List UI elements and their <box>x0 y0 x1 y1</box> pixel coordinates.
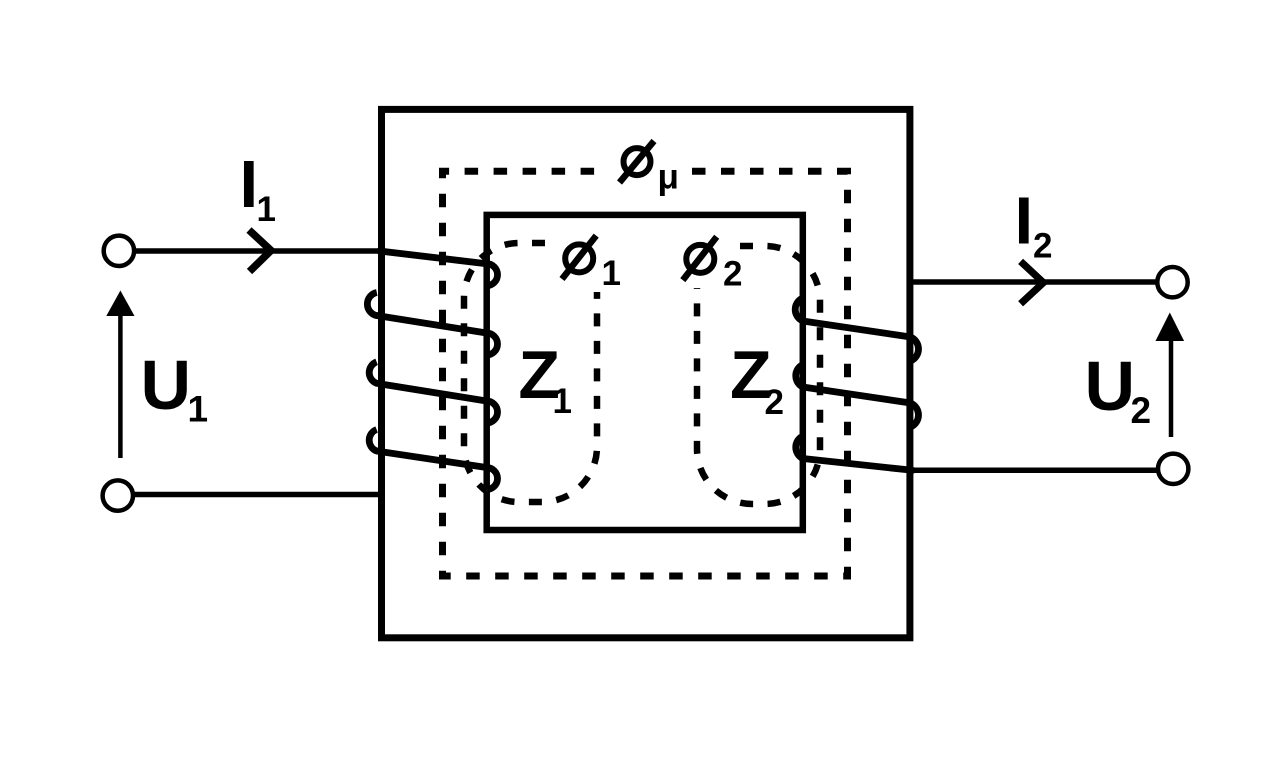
primary winding W1: turn bump 1 (window edge) <box>487 264 498 286</box>
wire: primary top lead <box>135 248 382 254</box>
primary winding W1: turn bump 1 (outer leg) <box>367 293 377 316</box>
core window (inner boundary) <box>487 215 803 530</box>
primary winding W1: turn diagonal 3 <box>377 451 487 468</box>
terminal: secondary bottom <box>1158 454 1188 484</box>
svg-text:I: I <box>240 147 259 222</box>
voltage arrow U1 head <box>106 291 134 317</box>
voltage arrow U2 shaft <box>1169 339 1174 437</box>
secondary winding W2: turn bump 1 (window edge) <box>795 298 803 321</box>
primary winding W1: turn bump 2 (outer leg) <box>369 362 376 384</box>
svg-text:1: 1 <box>257 190 276 229</box>
voltage arrow U2 head <box>1156 313 1185 342</box>
primary winding W1: turn bump 3 (window edge) <box>487 401 498 423</box>
svg-text:1: 1 <box>553 382 572 421</box>
flux label Phi2 : slashed circle <box>683 237 717 280</box>
primary winding W1: turn diagonal 2 <box>377 383 487 401</box>
secondary winding W2: exit diagonal to bottom lead <box>803 459 913 471</box>
svg-text:1: 1 <box>188 389 209 430</box>
terminal: secondary top <box>1157 267 1187 297</box>
terminal: primary top <box>104 236 134 266</box>
primary winding W1: turn diagonal 1 <box>377 316 487 334</box>
current arrow I1 (chevron on primary top lead) <box>249 230 271 272</box>
svg-text:2: 2 <box>723 255 742 294</box>
wire: primary bottom lead <box>134 492 382 498</box>
transformer core outer boundary <box>382 109 910 637</box>
svg-text:2: 2 <box>765 383 784 422</box>
terminal: primary bottom <box>103 480 133 510</box>
leakage flux loop Phi1 (dashed, gap at top-right corner for label) <box>464 243 597 502</box>
secondary winding W2: turn bump 1 (outer leg) <box>911 337 919 361</box>
leakage flux loop Phi2 (dashed, gap at top-left corner for label) <box>697 246 820 504</box>
current arrow I2 (chevron on secondary top lead) <box>1021 261 1044 303</box>
svg-text:2: 2 <box>1131 390 1152 431</box>
wire: secondary bottom lead <box>911 468 1158 474</box>
svg-text:U: U <box>141 346 192 424</box>
secondary winding W2: turn bump 2 (window edge) <box>796 365 803 388</box>
primary winding W1: entry diagonal from top lead <box>380 251 487 264</box>
wire: secondary top lead <box>907 279 1157 285</box>
secondary winding W2: turn diagonal 2 <box>803 387 911 403</box>
primary winding W1: turn bump 3 (outer leg) <box>369 430 376 452</box>
flux label Phi1 : slashed circle <box>562 236 596 279</box>
secondary winding W2: turn bump 2 (outer leg) <box>911 403 919 427</box>
svg-text:U: U <box>1085 347 1136 425</box>
flux label Phi-mu : slashed circle <box>620 141 655 183</box>
svg-text:I: I <box>1015 183 1034 258</box>
voltage arrow U1 shaft <box>118 313 123 458</box>
svg-text:1: 1 <box>602 254 621 293</box>
secondary winding W2: turn bump 3 (window edge) <box>796 436 803 459</box>
svg-text:μ: μ <box>658 157 679 196</box>
secondary winding W2: turn diagonal 1 <box>803 321 911 337</box>
primary winding W1: turn bump 2 (window edge) <box>487 333 498 355</box>
svg-text:2: 2 <box>1033 227 1052 266</box>
mutual flux path (dashed loop, gap at top for label) <box>443 171 848 576</box>
primary winding W1: turn bump 4 (window edge) <box>487 468 498 490</box>
